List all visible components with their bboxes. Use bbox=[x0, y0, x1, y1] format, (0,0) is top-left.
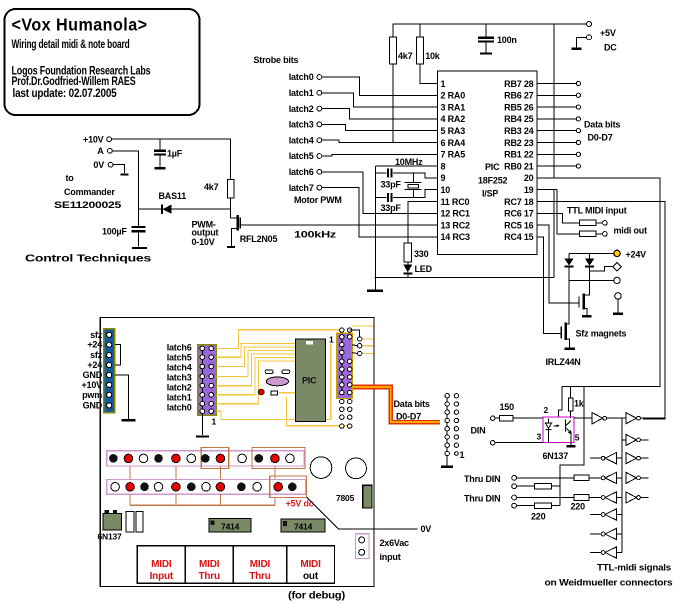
ground blue connector bbox=[122, 419, 136, 421]
svg-text:DIN: DIN bbox=[471, 425, 486, 435]
resistor R2 4k7 (pwm) bbox=[204, 180, 238, 219]
op-amp U1 PIC 18F252 chip body bbox=[438, 71, 538, 255]
connector MIDI sockets bbox=[137, 546, 334, 583]
component pill 1 bbox=[265, 370, 273, 374]
svg-text:GND: GND bbox=[83, 370, 103, 380]
LED row 2 group box bbox=[270, 476, 307, 497]
ground Q3 source bbox=[564, 348, 574, 350]
svg-text:RB7 28: RB7 28 bbox=[504, 79, 534, 89]
svg-text:TTL-midi signals: TTL-midi signals bbox=[597, 563, 671, 573]
wire row1 output to TTL MIDI input bbox=[640, 417, 665, 419]
label to Commander SE11200025 bbox=[54, 173, 121, 210]
buffer U4D row7 bbox=[590, 528, 622, 539]
buffer U4C row6 bbox=[590, 509, 622, 520]
svg-text:6 RA4: 6 RA4 bbox=[441, 138, 466, 148]
wire +5V rail down to pin20 bbox=[553, 24, 555, 178]
label Data bits D0-D7 bbox=[584, 120, 620, 143]
node latch4 bbox=[289, 135, 322, 145]
diode D4 flyback bbox=[585, 253, 594, 271]
svg-text:5 RA3: 5 RA3 bbox=[441, 126, 466, 136]
LED row 1 dots bbox=[109, 454, 294, 463]
wire A to BAS11 node bbox=[112, 151, 138, 209]
wire 0V out bbox=[307, 498, 418, 530]
svg-text:330: 330 bbox=[414, 249, 429, 259]
wire DC return hook bbox=[577, 37, 587, 47]
svg-text:latch4: latch4 bbox=[289, 135, 314, 145]
wire latch connector ground bbox=[201, 414, 203, 435]
svg-text:1µF: 1µF bbox=[167, 149, 183, 159]
ground under 100n bbox=[480, 52, 492, 54]
svg-text:1: 1 bbox=[460, 450, 465, 460]
svg-text:out: out bbox=[303, 571, 319, 582]
node D4 bbox=[576, 129, 580, 133]
wire pin16 RC5 to Q2 gate bbox=[537, 225, 579, 303]
buffer U3B bbox=[626, 413, 640, 424]
op-amp U9 7414 bbox=[281, 519, 325, 532]
buffer U3C row2 bbox=[622, 434, 649, 445]
svg-text:33pF: 33pF bbox=[381, 180, 402, 190]
svg-text:midi out: midi out bbox=[614, 226, 648, 236]
wire +5V branch down to thru pullups bbox=[560, 386, 584, 505]
svg-text:7414: 7414 bbox=[294, 522, 313, 532]
capacitor C3 100n bbox=[478, 24, 517, 53]
resistor R14 220 bbox=[517, 503, 552, 509]
node D6 bbox=[576, 152, 580, 156]
wire yellow latch5 bbox=[217, 344, 296, 358]
capacitor C4 33pF top bbox=[375, 168, 437, 189]
svg-text:0V: 0V bbox=[421, 524, 432, 534]
svg-text:100kHz: 100kHz bbox=[294, 230, 337, 240]
wire latch0 to pin2 bbox=[322, 77, 438, 95]
regulator 7805 bbox=[336, 485, 372, 508]
wire pin8 to oscillator ground bbox=[375, 165, 437, 167]
connector J5 2x6Vac bbox=[356, 534, 410, 562]
node latch7 bbox=[289, 183, 322, 193]
svg-text:3: 3 bbox=[537, 432, 542, 442]
svg-text:on Weidmueller connectors: on Weidmueller connectors bbox=[545, 578, 673, 588]
svg-text:I/SP: I/SP bbox=[482, 189, 498, 199]
svg-text:RC6 17: RC6 17 bbox=[504, 209, 534, 219]
component cap big 2 bbox=[346, 458, 367, 479]
svg-text:latch6: latch6 bbox=[167, 342, 192, 352]
svg-text:RB1 22: RB1 22 bbox=[504, 150, 534, 160]
wire pin18 RC7 TTL MIDI input bbox=[537, 202, 665, 420]
svg-text:MIDI: MIDI bbox=[151, 559, 172, 570]
svg-text:2: 2 bbox=[544, 405, 549, 415]
node latch6 bbox=[289, 167, 322, 177]
ground DC bbox=[572, 48, 582, 50]
svg-text:1: 1 bbox=[441, 79, 446, 89]
svg-text:5: 5 bbox=[575, 433, 580, 443]
resistor R12 220 bbox=[517, 483, 552, 489]
resistor R11 220 bbox=[517, 475, 602, 481]
wire ground bus bbox=[374, 277, 554, 279]
ground debug connector bbox=[441, 466, 453, 468]
ground under Q1 bbox=[227, 246, 235, 248]
node D5 bbox=[576, 140, 580, 144]
resistor R4 4k7 pullup RA4 bbox=[390, 24, 413, 143]
svg-text:RB3 24: RB3 24 bbox=[504, 126, 534, 136]
wire yellow latch2 bbox=[217, 354, 296, 386]
buffer U4B row5 pair bbox=[601, 492, 649, 503]
svg-text:latch1: latch1 bbox=[289, 88, 314, 98]
svg-text:Thru: Thru bbox=[249, 571, 271, 582]
buffer U5A row8 bbox=[590, 547, 622, 558]
svg-text:3 RA1: 3 RA1 bbox=[441, 102, 466, 112]
svg-text:6N137: 6N137 bbox=[543, 451, 569, 461]
wire pin20 +5V to opto pullup bbox=[537, 178, 661, 387]
component red LED pcb bbox=[258, 389, 264, 395]
wire pin19 Vss stub bbox=[537, 189, 558, 191]
node 0V terminal bbox=[93, 160, 113, 170]
label Data bits D0-D7 (debug) bbox=[394, 399, 430, 422]
node D2 bbox=[576, 105, 580, 109]
transistor Q2 magnet driver bbox=[579, 271, 590, 315]
PCB board outline bbox=[100, 317, 374, 586]
wire yellow right riser bbox=[330, 344, 332, 420]
node Thru DIN 1 pin a bbox=[464, 474, 517, 484]
svg-text:Data bits: Data bits bbox=[394, 399, 430, 409]
svg-text:+10V: +10V bbox=[82, 380, 103, 390]
wire yellow latch1 bbox=[217, 358, 296, 395]
wire pin19 to ground bus bbox=[553, 190, 555, 278]
ground 0V bbox=[121, 173, 129, 175]
svg-text:33pF: 33pF bbox=[381, 203, 402, 213]
svg-text:TTL MIDI input: TTL MIDI input bbox=[567, 206, 627, 216]
svg-text:+24V: +24V bbox=[626, 249, 647, 259]
svg-text:sfz: sfz bbox=[90, 330, 103, 340]
transistor Q3 IRLZ44N bbox=[546, 280, 581, 367]
wire diamond to Q2 drain bbox=[590, 267, 613, 272]
wire yellow latch0 bbox=[217, 361, 296, 404]
LED row 1 frame bbox=[107, 451, 304, 466]
buffer U4A row4 pair bbox=[601, 472, 649, 483]
node magnet terminal 2 bbox=[614, 277, 620, 283]
svg-text:latch5: latch5 bbox=[289, 151, 314, 161]
wire yellow stubs J4 bbox=[363, 339, 374, 354]
node latch1 bbox=[289, 88, 322, 98]
ground main bbox=[367, 278, 383, 291]
LED row 1 group box a bbox=[201, 447, 228, 468]
svg-text:Input: Input bbox=[150, 571, 174, 582]
svg-text:Prof.Dr.Godfried-Willem RAES: Prof.Dr.Godfried-Willem RAES bbox=[12, 76, 136, 88]
svg-text:RB2 23: RB2 23 bbox=[504, 138, 534, 148]
svg-text:Data bits: Data bits bbox=[584, 120, 620, 130]
svg-text:RC7 18: RC7 18 bbox=[504, 197, 534, 207]
resistor R6 330 bbox=[404, 202, 438, 263]
svg-text:to: to bbox=[66, 173, 75, 183]
svg-text:RC4 15: RC4 15 bbox=[504, 232, 534, 242]
svg-text:MIDI: MIDI bbox=[199, 559, 220, 570]
wire latch4 to pin6 bbox=[322, 140, 438, 142]
wire latch1 to pin3 bbox=[322, 93, 438, 107]
svg-text:1k: 1k bbox=[574, 399, 585, 409]
crystal X1 bbox=[405, 173, 422, 198]
node magnet terminal diamond bbox=[613, 263, 621, 271]
component pill 2 bbox=[282, 370, 290, 374]
wire 0V to ground bbox=[113, 165, 125, 173]
svg-text:4k7: 4k7 bbox=[398, 51, 413, 61]
wire latch6 to pin12 bbox=[322, 172, 438, 214]
svg-text:LED: LED bbox=[415, 264, 433, 274]
node latch3 bbox=[289, 120, 322, 130]
wire buffer to buffer row1 bbox=[607, 417, 626, 419]
connector J2 power (blue) bbox=[104, 329, 115, 413]
title block frame bbox=[5, 9, 200, 115]
wires RB7-RB0 to data bit terminals bbox=[537, 84, 577, 167]
svg-text:Thru DIN: Thru DIN bbox=[464, 494, 500, 504]
labels latch pins bbox=[167, 342, 192, 412]
svg-text:+5V: +5V bbox=[600, 28, 616, 38]
wire DIN to opto pin3 bbox=[495, 442, 543, 444]
node DIN terminal bbox=[491, 441, 495, 445]
svg-text:latch1: latch1 bbox=[167, 393, 192, 403]
component resonator bbox=[266, 377, 288, 386]
svg-text:latch2: latch2 bbox=[167, 383, 192, 393]
wire thru pullup stubs bbox=[552, 486, 560, 506]
transistor Q1 RFL2N05 bbox=[192, 215, 278, 247]
wire gate rail vertical bbox=[621, 418, 623, 552]
svg-text:10k: 10k bbox=[425, 51, 441, 61]
resistor R10 150 bbox=[495, 415, 543, 420]
node Thru DIN 2 pin a bbox=[464, 494, 517, 504]
svg-text:100µF: 100µF bbox=[102, 227, 127, 237]
svg-text:1: 1 bbox=[212, 417, 217, 427]
LED row 1 group box b bbox=[252, 447, 305, 468]
connector J1 debug data bits bbox=[445, 394, 465, 466]
node latch0 bbox=[289, 72, 322, 82]
svg-text:RB0 21: RB0 21 bbox=[504, 161, 534, 171]
svg-text:4 RA2: 4 RA2 bbox=[441, 114, 466, 124]
wire +10V rail to 4k7 R3 bbox=[112, 139, 231, 179]
wire yellow pic bottom bbox=[286, 397, 347, 426]
ground latch connector bbox=[196, 435, 209, 437]
svg-text:11 RC0: 11 RC0 bbox=[441, 197, 470, 207]
svg-text:MIDI: MIDI bbox=[300, 559, 321, 570]
svg-text:0V: 0V bbox=[93, 160, 104, 170]
LED row 2 frame bbox=[107, 479, 306, 494]
svg-text:18F252: 18F252 bbox=[478, 176, 508, 186]
node magnet terminal 3 bbox=[615, 293, 622, 313]
node +10V terminal bbox=[83, 135, 111, 145]
svg-text:100n: 100n bbox=[497, 35, 517, 45]
svg-text:Control Techniques: Control Techniques bbox=[25, 254, 152, 265]
svg-text:2x6Vac: 2x6Vac bbox=[380, 538, 410, 548]
node Thru DIN 2 pin b bbox=[512, 503, 517, 508]
svg-text:+24: +24 bbox=[87, 340, 102, 350]
wire salmon bus bbox=[130, 466, 275, 505]
node +5V DC terminals bbox=[587, 22, 618, 53]
svg-text:last update: 02.07.2005: last update: 02.07.2005 bbox=[13, 88, 118, 100]
pin labels right bbox=[504, 79, 534, 242]
node D7 bbox=[576, 164, 580, 168]
svg-text:220: 220 bbox=[571, 502, 586, 512]
pin labels left bbox=[441, 79, 471, 242]
svg-text:input: input bbox=[380, 552, 401, 562]
LED row 2 dots bbox=[111, 483, 297, 492]
component cap rect 2 bbox=[136, 511, 143, 532]
wire +5V top rail bbox=[393, 23, 587, 25]
svg-text:PIC: PIC bbox=[302, 376, 317, 386]
node latch2 bbox=[289, 104, 322, 114]
svg-text:pwm: pwm bbox=[82, 390, 102, 400]
component cap big 1 bbox=[310, 457, 332, 479]
capacitor C1 1uF bbox=[154, 139, 183, 168]
svg-text:SE11200025: SE11200025 bbox=[54, 200, 121, 210]
svg-text:Sfz magnets: Sfz magnets bbox=[576, 329, 627, 339]
svg-text:Commander: Commander bbox=[64, 187, 115, 197]
wire opto output to buffer bbox=[574, 417, 592, 419]
svg-text:4k7: 4k7 bbox=[204, 182, 219, 192]
svg-text:+10V: +10V bbox=[83, 135, 104, 145]
wire latch5 to pin7 bbox=[322, 154, 438, 156]
wire GND to ground bbox=[115, 375, 129, 419]
svg-text:150: 150 bbox=[500, 402, 515, 412]
svg-text:latch0: latch0 bbox=[289, 72, 314, 82]
svg-text:latch0: latch0 bbox=[167, 402, 192, 412]
svg-text:<Vox Humanola>: <Vox Humanola> bbox=[12, 15, 148, 35]
svg-text:0-10V: 0-10V bbox=[192, 237, 215, 247]
wire pin17 RC6 to midi out resistor bbox=[537, 213, 580, 223]
LED D2 bbox=[403, 262, 432, 277]
wire latch2 to pin4 bbox=[322, 109, 438, 119]
svg-text:220: 220 bbox=[531, 512, 546, 522]
op-amp U8 7414 bbox=[209, 518, 251, 532]
wire pin15 RC4 to Q3 gate bbox=[537, 237, 562, 334]
ground under 100uF bbox=[132, 247, 147, 249]
diode D3 flyback bbox=[564, 253, 573, 280]
resistor R7 midi out 220 bbox=[580, 220, 608, 226]
node D0 bbox=[576, 81, 580, 85]
wire +24 bridge bbox=[115, 345, 121, 365]
svg-text:latch3: latch3 bbox=[289, 120, 314, 130]
diode D1 BAS11 bbox=[138, 191, 230, 214]
node A terminal bbox=[97, 146, 112, 156]
svg-text:Thru: Thru bbox=[198, 571, 220, 582]
component cap rect 1 bbox=[126, 511, 134, 532]
svg-text:Motor PWM: Motor PWM bbox=[294, 195, 342, 205]
svg-text:MIDI: MIDI bbox=[250, 559, 271, 570]
svg-text:IRLZ44N: IRLZ44N bbox=[546, 357, 581, 367]
labels power pins bbox=[82, 330, 103, 411]
capacitor C2 100uF bbox=[102, 209, 145, 247]
svg-text:RB5 26: RB5 26 bbox=[504, 102, 534, 112]
wire yellow top edge bbox=[352, 325, 374, 327]
wire Motor PWM gate to PIC pin13 bbox=[240, 224, 437, 226]
svg-text:14 RC3: 14 RC3 bbox=[441, 232, 471, 242]
svg-text:sfz: sfz bbox=[90, 350, 103, 360]
resistor R9 1k pullup bbox=[568, 386, 584, 418]
component jumper bbox=[271, 391, 278, 395]
connector J3 latch (purple) bbox=[198, 345, 217, 427]
svg-text:GND: GND bbox=[83, 400, 103, 410]
node +24V terminal bbox=[569, 249, 646, 259]
wire yellow latch4 bbox=[217, 347, 296, 367]
wire yellow latch3 bbox=[217, 351, 296, 377]
wire yellow bottom bus bbox=[217, 411, 331, 419]
wire pin19 to midi out resistor bbox=[557, 190, 579, 234]
svg-text:RFL2N05: RFL2N05 bbox=[240, 234, 278, 244]
svg-text:PIC: PIC bbox=[485, 162, 500, 172]
wire yellow latch6 bbox=[217, 330, 342, 349]
op-amp U2 6N137 optocoupler bbox=[537, 405, 580, 461]
ground Q2 source bbox=[582, 315, 592, 317]
svg-text:+24: +24 bbox=[87, 360, 102, 370]
connector J4 data (purple) bbox=[329, 328, 362, 399]
capacitor C5 33pF bottom bbox=[375, 190, 437, 213]
node Thru DIN 1 pin b bbox=[512, 484, 517, 489]
svg-text:2 RA0: 2 RA0 bbox=[441, 91, 466, 101]
wire latch3 to pin5 bbox=[322, 124, 438, 130]
wire oscillator ground vertical bbox=[374, 166, 376, 277]
svg-text:A: A bbox=[97, 146, 104, 156]
buffer U3D row3 pair bbox=[590, 453, 649, 464]
svg-text:Thru DIN: Thru DIN bbox=[464, 474, 500, 484]
wire latch7 to pin14 bbox=[322, 188, 438, 237]
svg-text:latch3: latch3 bbox=[167, 373, 192, 383]
resistor R8 midi out 220 bbox=[580, 231, 608, 237]
op-amp U6 PIC pcb bbox=[295, 339, 325, 422]
wire opto Vcc jog bbox=[558, 386, 562, 417]
svg-text:RC5 16: RC5 16 bbox=[504, 220, 534, 230]
svg-text:9: 9 bbox=[441, 173, 446, 183]
svg-text:DC: DC bbox=[604, 43, 617, 53]
wire data bus orange bbox=[353, 387, 440, 422]
ground opto pin5 bbox=[566, 442, 575, 446]
wire terminal2 to Q3 drain bbox=[569, 279, 614, 281]
svg-text:D0-D7: D0-D7 bbox=[588, 133, 613, 143]
label TTL-midi signals on Weidmueller connectors bbox=[545, 563, 673, 588]
svg-text:latch6: latch6 bbox=[289, 167, 314, 177]
svg-text:latch7: latch7 bbox=[289, 183, 314, 193]
svg-text:Strobe bits: Strobe bits bbox=[254, 55, 299, 65]
ground terminal 3 bbox=[613, 313, 623, 315]
label Motor PWM 100kHz bbox=[294, 195, 342, 240]
svg-text:7 RA5: 7 RA5 bbox=[441, 150, 466, 160]
connector J4 lower pins bbox=[340, 399, 352, 428]
svg-text:12 RC1: 12 RC1 bbox=[441, 209, 471, 219]
node D3 bbox=[576, 117, 580, 121]
svg-text:Wiring detail midi & note boar: Wiring detail midi & note board bbox=[12, 39, 130, 51]
svg-text:BAS11: BAS11 bbox=[159, 191, 187, 201]
svg-text:output: output bbox=[192, 227, 219, 237]
svg-text:7414: 7414 bbox=[221, 522, 240, 532]
svg-text:7805: 7805 bbox=[336, 493, 355, 503]
node midi in terminal bbox=[491, 416, 495, 420]
node latch5 bbox=[289, 151, 322, 161]
svg-text:19: 19 bbox=[524, 185, 534, 195]
resistor R13 220 bbox=[517, 495, 602, 501]
svg-text:RB6 27: RB6 27 bbox=[504, 91, 534, 101]
svg-text:1: 1 bbox=[329, 335, 334, 345]
buffer U3A bbox=[592, 413, 606, 424]
svg-text:13 RC2: 13 RC2 bbox=[441, 220, 471, 230]
op-amp U7 6N137 pcb bbox=[98, 510, 123, 542]
svg-text:latch5: latch5 bbox=[167, 352, 192, 362]
svg-text:(for debug): (for debug) bbox=[288, 591, 345, 602]
resistor R5 10k pullup MCLR bbox=[417, 24, 441, 84]
svg-text:8: 8 bbox=[441, 161, 446, 171]
svg-text:latch2: latch2 bbox=[289, 104, 314, 114]
svg-text:10: 10 bbox=[441, 185, 451, 195]
svg-text:RB4 25: RB4 25 bbox=[504, 114, 534, 124]
svg-text:6N137: 6N137 bbox=[98, 532, 123, 542]
wire yellow resonator bbox=[279, 392, 295, 394]
node D1 bbox=[576, 93, 580, 97]
svg-text:10MHz: 10MHz bbox=[395, 157, 423, 167]
svg-text:20: 20 bbox=[524, 173, 534, 183]
svg-text:latch4: latch4 bbox=[167, 363, 192, 373]
